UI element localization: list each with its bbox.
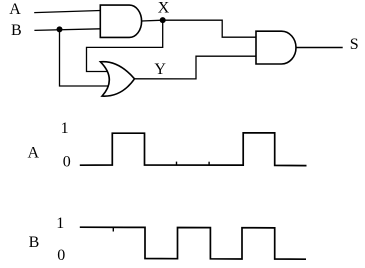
svg-text:B: B xyxy=(11,22,22,39)
svg-text:1: 1 xyxy=(61,120,69,137)
svg-text:B: B xyxy=(29,234,40,251)
svg-text:S: S xyxy=(350,36,359,53)
svg-text:Y: Y xyxy=(154,61,166,78)
svg-text:0: 0 xyxy=(57,247,65,264)
svg-text:X: X xyxy=(158,0,170,16)
svg-text:A: A xyxy=(9,1,21,18)
svg-text:A: A xyxy=(28,145,40,162)
svg-text:1: 1 xyxy=(56,215,64,232)
svg-text:0: 0 xyxy=(63,154,71,171)
